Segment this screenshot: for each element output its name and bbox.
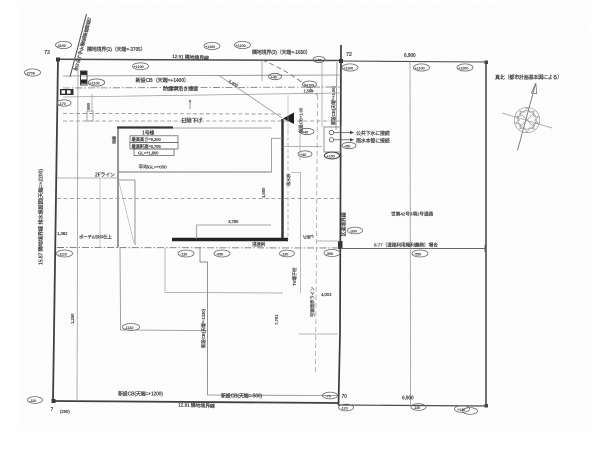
wire utility vert x322 — [321, 62, 323, 127]
wire fence chain line y88 — [63, 87, 340, 88]
wire short horiz y334 — [299, 333, 338, 335]
node oval -2700 left edge — [25, 69, 41, 76]
component utility connection box — [324, 127, 341, 152]
node oval -1110 lower — [123, 324, 140, 331]
node oval pair +130 below bottom — [455, 406, 478, 415]
wire dashed turning arc — [262, 60, 318, 95]
node corner blob bottom-right — [485, 404, 489, 408]
node oval +40 left — [269, 73, 282, 79]
wire building north wall — [117, 126, 173, 128]
node oval -950 row — [214, 250, 230, 257]
node oval -550 row c — [324, 250, 340, 257]
wire dashed passage line y113 — [63, 113, 281, 116]
node entrance triangle marker — [283, 113, 294, 125]
wire dashed line y247.5 left parcel — [57, 247, 340, 250]
node oval +100 dark — [325, 152, 340, 159]
wire 2-kou road setback diagonal line — [70, 14, 87, 77]
node corner blob top-left — [56, 58, 60, 62]
wire building ne step horiz — [272, 137, 283, 139]
wire eaves dashed vertical — [287, 131, 289, 240]
wire step vert x200 — [200, 248, 208, 395]
node oval -120 below bottom — [339, 404, 354, 411]
node oval -300 — [348, 227, 363, 234]
wire utility vert x288 upper — [287, 95, 289, 131]
wire center divider boundary — [339, 45, 342, 405]
node oval +50 — [342, 142, 356, 148]
wire faint vertical x100 — [99, 178, 101, 247]
wire bottom cb line y395 — [208, 394, 338, 397]
wire right boundary — [485, 62, 487, 406]
node junction divider at south line — [338, 241, 343, 249]
wire 2F short line a — [57, 177, 118, 179]
node oval -130 below bottom — [411, 404, 426, 411]
wire tray horiz y292 — [165, 292, 283, 295]
wire top boundary right parcel — [341, 61, 487, 62]
node oval -120 bottom left edge — [28, 397, 43, 404]
node oval 70 bottom — [323, 392, 338, 399]
wire left boundary — [53, 59, 58, 402]
wire south wall thin extension — [317, 240, 340, 242]
node tick right end of south line — [484, 245, 486, 252]
node oval +1200 right parcel c — [457, 64, 473, 71]
node oval +4 a — [300, 128, 314, 134]
component existing structure marker — [60, 89, 74, 95]
wire L-line east of building — [291, 172, 301, 293]
wire small vertical x92 — [91, 94, 93, 111]
wire interior line y225 — [197, 224, 271, 226]
node oval +1100 right parcel a — [342, 64, 358, 71]
node oval -170 — [57, 100, 71, 106]
node oval -550 right — [412, 250, 428, 257]
node oval +1100 right parcel b — [414, 64, 430, 71]
component porch rails — [118, 180, 135, 245]
wire building west edge — [117, 127, 119, 248]
component manhole circle a — [329, 130, 333, 134]
wire building ne step vert — [271, 138, 273, 172]
wire radius dimension line — [219, 76, 282, 119]
wire interior vert x197 — [196, 225, 198, 239]
wire utility box bottom line — [283, 146, 322, 148]
node oval -1110 row — [57, 250, 73, 257]
wire tray vert x165 — [164, 248, 166, 293]
wire building south wall thick — [172, 238, 288, 242]
node oval +40 near divider top — [313, 57, 325, 63]
node oval -3150 — [56, 41, 72, 48]
node oval 1100 under label — [133, 63, 149, 70]
wire long dashed line y200 — [57, 198, 340, 200]
wire setback diagonal hatch ticks — [73, 20, 91, 70]
wire bottom boundary left parcel — [53, 401, 338, 403]
wire lower rect bottom y330 — [121, 329, 208, 332]
node corner blob bottom-left — [52, 399, 56, 403]
node corner blob top-right — [485, 61, 489, 65]
wire building north wall thin part — [173, 127, 272, 129]
wire thin line y95 — [63, 93, 341, 97]
wire utility vert x300 — [299, 127, 301, 160]
node junction top of divider — [339, 59, 343, 63]
wire sewer arrow b — [334, 139, 350, 141]
component compass rose — [514, 107, 539, 132]
wire compass cross line — [502, 113, 552, 128]
node oval 1100 low left — [88, 79, 104, 86]
node oval +1100 utility — [303, 81, 317, 88]
node oval +1100 top b — [235, 41, 251, 48]
node up arrow small — [189, 101, 191, 110]
wire divider companion line — [336, 62, 337, 130]
wire new CB wall line y75 — [63, 75, 341, 76]
wire south line right parcel — [341, 248, 486, 250]
wire compass north arrow — [518, 84, 536, 151]
node oval -130 row a — [178, 250, 194, 257]
component manhole circle b — [329, 138, 333, 142]
wire fence vertical line x76 — [77, 61, 78, 401]
wire karabori dashed vertical x316 — [316, 95, 318, 375]
wire dashed eaves line y121 — [63, 120, 340, 122]
node oval -130 row b — [280, 250, 295, 257]
node oval +1100 top a — [204, 42, 220, 49]
wire building east wall thick — [281, 119, 283, 239]
wire bottom boundary right parcel — [338, 405, 487, 406]
wire short vert at arc start — [261, 61, 263, 81]
wire building mid floor line — [118, 171, 272, 173]
wire lower rect west side x120 — [119, 248, 122, 330]
component info table building 1 — [130, 130, 178, 171]
component gate ladder marker — [81, 71, 88, 85]
wire road center line x410 — [409, 62, 412, 406]
node oval +4 b — [298, 151, 312, 157]
wire sewer arrow a — [334, 132, 350, 134]
wire top boundary left parcel — [57, 59, 341, 60]
component bicycle rack box — [87, 111, 93, 121]
